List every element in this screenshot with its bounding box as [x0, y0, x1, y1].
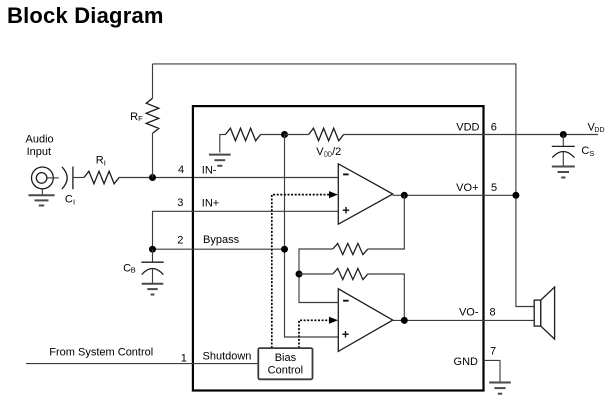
svg-text:Bypass: Bypass: [203, 234, 240, 246]
svg-text:IN-: IN-: [202, 165, 217, 177]
svg-text:DD: DD: [324, 151, 332, 158]
wire VO+ (pin 5 net): [393, 194, 516, 196]
wire (feedback resistor to U2 minus input): [299, 249, 338, 303]
node (RI / RF / IN- junction): [149, 174, 156, 181]
label CS: [581, 145, 594, 158]
dashed bias line to U1: [272, 191, 338, 348]
svg-text:3: 3: [177, 197, 183, 209]
svg-text:5: 5: [491, 182, 497, 194]
svg-text:S: S: [589, 149, 594, 158]
label Bias Control: [268, 352, 303, 377]
U1 plus input marker: [343, 207, 349, 213]
wire IN- (pin 4 net): [119, 177, 338, 179]
node (Bypass / CB junction): [149, 246, 156, 253]
wire (feedback: RF top to VO+ node and speaker): [153, 64, 535, 307]
label VDD supply: [588, 122, 605, 134]
svg-text:R: R: [130, 111, 138, 123]
svg-text:1: 1: [181, 352, 187, 364]
op-amp U1 (top): [338, 164, 393, 224]
node (VO+ / feedback / speaker junction): [512, 192, 519, 199]
U2 minus input marker: [343, 300, 349, 302]
svg-text:F: F: [138, 114, 143, 123]
IC box (amplifier): [193, 106, 484, 390]
svg-text:C: C: [65, 194, 73, 206]
capacitor CB: [141, 249, 163, 283]
svg-text:Block Diagram: Block Diagram: [7, 3, 164, 28]
svg-text:Bias: Bias: [275, 352, 297, 364]
svg-text:VO-: VO-: [459, 307, 479, 319]
audio input jack J1: [32, 167, 54, 195]
svg-text:From System Control: From System Control: [49, 347, 153, 359]
node (VDD / CS junction): [560, 131, 567, 138]
resistor (divider, to VDD): [285, 128, 344, 141]
wire Bypass (pin 2 net): [153, 248, 285, 250]
label Audio Input: [26, 134, 54, 159]
svg-text:Input: Input: [27, 146, 51, 158]
svg-text:I: I: [104, 158, 106, 167]
ground (GND pin): [489, 383, 511, 394]
label RI: [96, 155, 106, 168]
svg-text:C: C: [581, 145, 589, 157]
resistor RF: [146, 64, 159, 178]
capacitor CS: [552, 135, 575, 167]
wire (VDD/2 node to op-amp U2 + input): [285, 135, 339, 338]
ground (audio jack): [28, 195, 54, 205]
svg-text:Control: Control: [268, 365, 303, 377]
speaker LS1: [534, 287, 554, 339]
svg-text:Shutdown: Shutdown: [203, 351, 252, 363]
resistor (feedback, VO+ to U2 inverting): [333, 243, 368, 254]
node (U2 output): [401, 317, 408, 324]
label VDD/2: [316, 146, 341, 158]
svg-text:GND: GND: [454, 356, 479, 368]
capacitor CI: [62, 167, 73, 190]
svg-text:I: I: [73, 197, 75, 206]
svg-text:6: 6: [491, 122, 497, 134]
op-amp U2 (bottom): [338, 289, 393, 352]
label RF: [130, 111, 143, 123]
U2 plus input marker: [342, 331, 348, 337]
node (U1 output): [401, 192, 408, 199]
wire GND (pin 7 net): [484, 360, 500, 381]
svg-text:VDD: VDD: [456, 122, 479, 134]
resistor (feedback, U2 inverting to VO-): [299, 268, 404, 320]
node (VDD/2): [281, 131, 288, 138]
wire Shutdown (pin 1 net): [26, 363, 258, 365]
ground (VDD/2 divider): [209, 155, 231, 166]
wire IN+ (pin 3 net): [153, 211, 339, 249]
wire (CI to RI): [73, 177, 84, 179]
svg-text:7: 7: [490, 346, 496, 358]
svg-text:8: 8: [489, 306, 495, 318]
wire VO- (pin 8 net): [393, 319, 534, 321]
svg-text:IN+: IN+: [202, 198, 219, 210]
label CI: [65, 194, 75, 207]
svg-text:B: B: [131, 266, 136, 275]
ground (CB): [142, 284, 164, 295]
ground (CS): [552, 167, 575, 178]
node (Bypass / VDD2 column junction): [281, 246, 288, 253]
U1 minus input marker: [343, 173, 349, 175]
svg-text:VO+: VO+: [456, 182, 478, 194]
bias control block: [258, 348, 312, 379]
wire VDD (pin 6 net): [344, 134, 599, 136]
svg-text:4: 4: [178, 164, 184, 176]
svg-text:R: R: [96, 155, 104, 167]
label CB: [123, 262, 136, 274]
svg-text:/2: /2: [332, 146, 341, 158]
svg-text:2: 2: [177, 234, 183, 246]
wire (VO+ node down to feedback resistor): [368, 195, 405, 249]
resistor RI: [84, 171, 119, 184]
resistor (divider, to ground): [220, 128, 285, 152]
wire (jack to CI): [47, 177, 59, 179]
node (U2 inverting node): [296, 271, 303, 278]
svg-text:V: V: [316, 146, 324, 158]
dashed bias line to U2: [299, 317, 338, 348]
svg-text:Audio: Audio: [26, 134, 54, 146]
svg-text:DD: DD: [594, 127, 604, 134]
